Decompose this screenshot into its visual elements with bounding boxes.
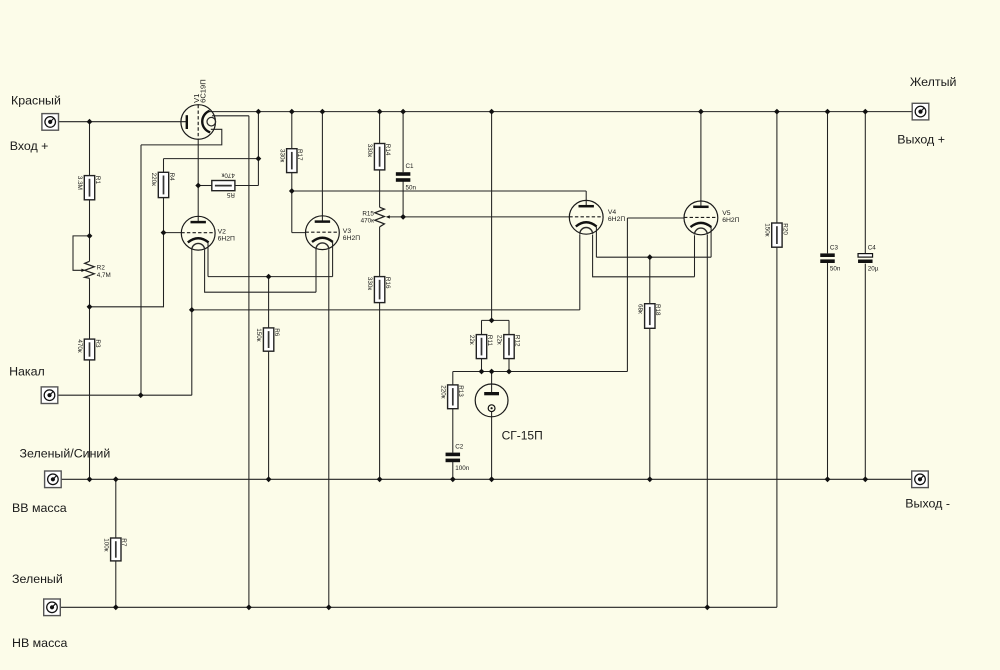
- wire V1 heater to HV ground rail: [212, 116, 249, 608]
- svg-text:R15: R15: [362, 210, 374, 217]
- label Krasny (red): [11, 94, 61, 108]
- svg-text:330к: 330к: [278, 149, 285, 163]
- terminal output-: [912, 471, 929, 488]
- node SG anode: [489, 369, 495, 375]
- svg-text:220к: 220к: [150, 173, 157, 187]
- svg-text:R1: R1: [94, 176, 101, 185]
- wire top B+ rail: [208, 111, 912, 113]
- wire V1 cathode side to filament line: [141, 129, 222, 395]
- svg-text:68к: 68к: [636, 304, 643, 314]
- wire input to V1 anode: [59, 121, 187, 123]
- svg-text:R2: R2: [97, 265, 106, 272]
- resistor R5: [212, 171, 235, 198]
- wire C3 bottom lead: [827, 262, 829, 479]
- wire V4-V5 heater link: [593, 235, 695, 277]
- capacitor C1: [396, 163, 417, 191]
- resistor R20: [763, 223, 788, 247]
- node on B+ rail x=491.6: [489, 109, 495, 115]
- triode V4 6N2P: [569, 200, 603, 234]
- wire V3 grid lead: [292, 191, 306, 233]
- svg-text:R11: R11: [486, 335, 493, 347]
- capacitor C3: [820, 244, 840, 272]
- node on LV ground rail x=248.9: [246, 604, 252, 610]
- wire R13 to C2: [452, 409, 454, 453]
- wire V1 grid to V2 anode: [197, 139, 199, 221]
- svg-text:СГ-15П: СГ-15П: [502, 429, 543, 443]
- label V4: [608, 209, 625, 223]
- potentiometer R2: [81, 261, 110, 279]
- svg-text:6С19П: 6С19П: [199, 79, 208, 103]
- resistor R1: [76, 176, 101, 200]
- wire C4 top lead: [864, 112, 866, 254]
- svg-text:4,7М: 4,7М: [97, 272, 111, 279]
- wire V2 heater left leg: [191, 248, 193, 310]
- svg-text:R7: R7: [120, 538, 127, 547]
- resistor R3: [76, 339, 101, 360]
- wire C2 bottom lead: [452, 462, 454, 480]
- label VV massa: [12, 501, 67, 515]
- node on B+ rail x=776.9: [774, 109, 780, 115]
- node filament bus: [189, 307, 195, 313]
- wire R17 bottom lead: [291, 173, 293, 191]
- label Vyhod- (output-): [905, 497, 950, 511]
- capacitor C4: [858, 245, 879, 273]
- svg-text:R17: R17: [296, 149, 303, 161]
- svg-text:330к: 330к: [366, 277, 373, 291]
- wire R13 top lead: [452, 372, 454, 385]
- wire SG cathode lead: [491, 412, 493, 480]
- node on LV ground rail x=328.8: [326, 604, 332, 610]
- wire R1 bottom to R2: [89, 200, 91, 261]
- wire R5 left lead: [198, 185, 212, 187]
- svg-text:R4: R4: [168, 173, 175, 182]
- label Zeleny/Siny: [20, 446, 111, 460]
- svg-text:22к: 22к: [496, 335, 503, 345]
- resistor R11: [468, 335, 493, 359]
- node on HT ground rail x=649.8: [647, 476, 653, 482]
- node C1/wiper: [400, 214, 406, 220]
- svg-text:R16: R16: [384, 277, 391, 289]
- wire R14 top lead: [379, 112, 381, 144]
- wire R6 bottom lead: [268, 351, 270, 479]
- svg-text:V4: V4: [608, 209, 617, 216]
- wire R7 bottom lead: [115, 561, 117, 607]
- svg-text:V2: V2: [218, 228, 227, 235]
- wire V4-V5 cathode link: [596, 227, 711, 258]
- node on B+ rail x=700.9: [698, 109, 704, 115]
- resistor R16: [366, 277, 391, 303]
- wire R14 to R15: [379, 170, 381, 207]
- svg-text:22к: 22к: [468, 335, 475, 345]
- wire C1 top lead: [402, 112, 404, 173]
- wire rail drop to R5: [257, 112, 259, 186]
- svg-text:20µ: 20µ: [868, 266, 879, 273]
- svg-text:50п: 50п: [830, 266, 840, 273]
- svg-text:330к: 330к: [366, 144, 373, 158]
- resistor R7: [102, 538, 127, 561]
- wire R3 bottom to ground rail: [89, 360, 91, 479]
- svg-text:470к: 470к: [76, 339, 83, 353]
- terminal output+: [912, 103, 929, 120]
- svg-text:Выход -: Выход -: [905, 497, 950, 511]
- triode V3 6N2P: [306, 216, 340, 250]
- potentiometer R15: [361, 207, 390, 227]
- node R2 top: [87, 233, 93, 239]
- node input/R1: [87, 119, 93, 125]
- svg-text:3.3M: 3.3M: [76, 176, 83, 190]
- triode V1 6S19P: [181, 79, 216, 139]
- svg-text:Накал: Накал: [9, 365, 45, 379]
- node cathode/R18: [647, 254, 653, 260]
- wire V2-V3 heater link: [205, 248, 316, 292]
- node on HT ground rail x=115.8: [113, 476, 119, 482]
- wire R20 top lead: [776, 112, 778, 223]
- wire V3 heater right leg to HV ground: [328, 250, 330, 608]
- node on B+ rail x=322.4: [320, 109, 326, 115]
- wire rail drop to R11 R12: [491, 112, 493, 321]
- wire R17 top lead: [291, 112, 293, 149]
- wire R18 top lead: [649, 257, 651, 304]
- wire R16 bottom lead: [379, 303, 381, 480]
- node on HT ground rail x=268.6: [266, 476, 272, 482]
- wire R15 wiper to V4 grid: [389, 216, 569, 218]
- wire R7 top lead: [115, 479, 117, 538]
- wire C3 top lead: [827, 112, 829, 254]
- label Zeleny (green): [12, 572, 63, 586]
- svg-text:R5: R5: [226, 191, 235, 198]
- wire bias node to V2 grid column: [90, 233, 164, 307]
- svg-text:470к: 470к: [361, 218, 375, 225]
- wire R15 to R16: [379, 227, 381, 277]
- node R11 bottom: [479, 369, 485, 375]
- terminal input+: [42, 114, 59, 131]
- svg-text:Вход +: Вход +: [10, 139, 49, 153]
- node on B+ rail x=291.8: [289, 109, 295, 115]
- node on B+ rail x=403.1: [400, 109, 406, 115]
- gas regulator tube SG-15P: [475, 384, 508, 417]
- label Zhelty (yellow): [910, 75, 957, 89]
- node cathode/R6: [266, 274, 272, 280]
- wire V2-V3 cathode link: [208, 242, 333, 277]
- wire regulator node to V5 grid: [453, 218, 684, 372]
- wire V3 anode lead: [321, 112, 323, 222]
- svg-text:Зеленый: Зеленый: [12, 572, 63, 586]
- svg-text:C1: C1: [406, 163, 415, 170]
- svg-text:R3: R3: [94, 339, 101, 348]
- node on B+ rail x=865.3: [862, 109, 868, 115]
- node on LV ground rail x=115.8: [113, 604, 119, 610]
- svg-text:НВ масса: НВ масса: [12, 636, 67, 650]
- resistor R14: [366, 144, 391, 170]
- wire R17 node to V4 anode: [292, 191, 586, 206]
- triode V5 6N2P: [684, 201, 718, 235]
- node R17/V3 grid/V4 anode: [289, 188, 295, 194]
- resistor R12: [496, 335, 521, 359]
- svg-text:R20: R20: [781, 223, 788, 235]
- triode V2 6N2P: [181, 216, 215, 250]
- node R12 bottom: [506, 369, 512, 375]
- node on HT ground rail x=452.8: [450, 476, 456, 482]
- label SG-15P: [502, 429, 543, 443]
- svg-text:V3: V3: [343, 228, 352, 235]
- svg-text:R14: R14: [384, 144, 391, 156]
- wire V2 grid lead: [164, 232, 182, 234]
- svg-text:R12: R12: [513, 335, 520, 347]
- node R4/R5: [256, 156, 262, 162]
- node on B+ rail x=379.6: [377, 109, 383, 115]
- node on HT ground rail x=827.5: [825, 476, 831, 482]
- svg-text:R18: R18: [654, 304, 661, 316]
- label V2: [218, 228, 235, 242]
- wire R4 bottom lead: [163, 198, 165, 233]
- svg-text:6Н2П: 6Н2П: [343, 235, 360, 242]
- node V2 grid/R4: [161, 230, 167, 236]
- node on HT ground rail x=491.6: [489, 476, 495, 482]
- wire V5 anode lead: [700, 112, 702, 207]
- wire R6 top lead: [268, 277, 270, 328]
- wire filament terminal line: [58, 310, 192, 395]
- resistor R17: [278, 149, 303, 173]
- node on B+ rail x=827.5: [825, 109, 831, 115]
- terminal green/blue: [45, 471, 62, 488]
- svg-text:220к: 220к: [439, 385, 446, 399]
- wire HT ground rail: [61, 478, 912, 480]
- svg-text:6Н2П: 6Н2П: [722, 217, 739, 224]
- wire R4 top lead: [163, 159, 165, 173]
- label Vhod+ (input+): [10, 139, 49, 153]
- wire R5 right lead: [235, 185, 259, 187]
- terminal green: [44, 599, 61, 616]
- svg-text:6Н2П: 6Н2П: [608, 216, 625, 223]
- wire R1 top lead: [89, 122, 91, 176]
- svg-text:R6: R6: [273, 328, 280, 337]
- svg-text:6Н2П: 6Н2П: [218, 236, 235, 243]
- svg-text:Желтый: Желтый: [910, 75, 957, 89]
- label V5: [722, 210, 739, 224]
- resistor R13: [439, 385, 464, 409]
- svg-text:C3: C3: [830, 244, 839, 251]
- svg-text:150к: 150к: [763, 223, 770, 237]
- label NV massa: [12, 636, 67, 650]
- svg-text:470к: 470к: [221, 171, 235, 178]
- wire R11 R12 top leads: [482, 320, 510, 334]
- wire R2 to R3: [89, 278, 91, 339]
- label Vyhod+ (output+): [897, 132, 945, 146]
- terminal filament: [41, 387, 58, 404]
- wire SG anode lead: [491, 372, 493, 393]
- node on HT ground rail x=89.5: [87, 476, 93, 482]
- svg-text:Красный: Красный: [11, 94, 61, 108]
- wire R18 bottom lead: [649, 328, 651, 479]
- wire R20 bottom lead: [776, 247, 778, 607]
- wire R4 to node: [164, 158, 259, 160]
- node on B+ rail x=258.4: [256, 109, 262, 115]
- node on HT ground rail x=865.3: [862, 476, 868, 482]
- wire R2 wiper bracket: [73, 236, 90, 270]
- label Nakal (filament): [9, 365, 45, 379]
- svg-text:ВВ масса: ВВ масса: [12, 501, 67, 515]
- svg-text:Выход +: Выход +: [897, 132, 945, 146]
- capacitor C2: [446, 444, 470, 472]
- svg-text:50n: 50n: [406, 184, 417, 191]
- svg-text:150к: 150к: [255, 328, 262, 342]
- resistor R18: [636, 304, 661, 329]
- wire V5 heater right leg to HV ground: [706, 235, 708, 607]
- node R2-R3/bias: [87, 304, 93, 310]
- node filament/V1: [138, 392, 144, 398]
- wire C4 bottom lead: [864, 264, 866, 480]
- wire C1 bottom lead: [402, 181, 404, 217]
- label V3: [343, 228, 360, 242]
- svg-text:R13: R13: [457, 385, 464, 397]
- wire R11 R12 bottom leads: [482, 359, 510, 372]
- svg-text:100к: 100к: [102, 538, 109, 552]
- wire LV ground rail: [60, 606, 777, 608]
- resistor R6: [255, 328, 280, 351]
- node on HT ground rail x=379.6: [377, 476, 383, 482]
- svg-text:C2: C2: [455, 444, 464, 451]
- svg-text:100n: 100n: [455, 465, 470, 472]
- node V1 grid/R5: [195, 183, 201, 189]
- node R11/R12 top: [489, 318, 495, 324]
- wire filament bus to V4 heater: [192, 234, 580, 310]
- svg-text:V5: V5: [722, 210, 731, 217]
- svg-text:Зеленый/Синий: Зеленый/Синий: [20, 446, 111, 460]
- node on LV ground rail x=707.3: [704, 604, 710, 610]
- svg-text:C4: C4: [868, 245, 877, 252]
- resistor R4: [150, 172, 175, 197]
